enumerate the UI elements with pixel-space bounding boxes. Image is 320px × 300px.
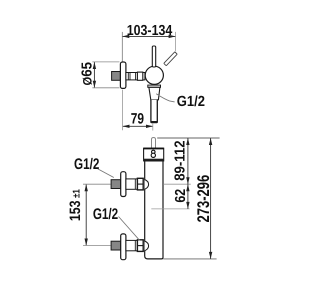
front view lower connection nut xyxy=(111,241,121,250)
dimension 79 left extension line xyxy=(122,90,124,131)
front view upper ball joint dome xyxy=(145,180,149,190)
dimension 62 arrows xyxy=(186,184,189,209)
svg-text:273-296: 273-296 xyxy=(194,175,213,223)
extension line at lower outlet center xyxy=(151,208,189,210)
label G1/2 upper front leader line xyxy=(98,169,114,178)
dimension Ø65 line xyxy=(93,62,95,88)
dimension 62 text xyxy=(173,189,189,203)
dimension 103-134 line xyxy=(122,35,175,37)
front view body cap top thick edge xyxy=(144,148,164,150)
front view upper connection nut xyxy=(111,180,121,189)
label G1/2 lower front leader line xyxy=(119,217,140,241)
dimension 89-112 line xyxy=(187,138,189,184)
front view lower pipe ring line xyxy=(134,240,136,250)
side view outlet collar band xyxy=(148,85,161,87)
dimension 89-112 arrows xyxy=(186,138,189,184)
dimension 153 tolerance text xyxy=(71,189,82,198)
label G1/2 upper front text xyxy=(74,156,99,173)
svg-text:G1/2: G1/2 xyxy=(93,206,118,223)
front view upper escutcheon plate xyxy=(121,172,126,197)
dimension 153 line xyxy=(85,184,87,245)
front view lever knob circle small xyxy=(152,150,156,154)
front view upper connection pipe xyxy=(126,179,137,189)
dimension 153 text xyxy=(67,200,84,221)
svg-text:G1/2: G1/2 xyxy=(177,94,205,110)
label G1/2 side view text xyxy=(177,94,205,110)
dimension 62 line xyxy=(187,184,189,209)
dimension 89-112 text xyxy=(173,140,189,180)
side view wall nut xyxy=(112,72,121,81)
dimension 273-296 arrows xyxy=(209,138,212,259)
side view outlet tapered neck xyxy=(149,87,160,100)
svg-text:±1: ±1 xyxy=(71,189,82,198)
front view body column xyxy=(145,161,163,259)
side view lever open position outline xyxy=(164,52,177,66)
side view lever stem vertical xyxy=(152,46,155,67)
front view lower escutcheon plate xyxy=(121,234,126,260)
dimension Ø65 arrows xyxy=(93,62,96,88)
dimension Ø65 bottom extension line xyxy=(92,87,119,89)
side view union collar xyxy=(137,72,142,80)
dimension 273-296 text xyxy=(194,175,213,223)
dimension 153 bottom extension line xyxy=(83,245,111,247)
front view body cap dark band xyxy=(144,159,164,161)
side view escutcheon plate xyxy=(120,62,126,88)
front view bottom extension line xyxy=(163,258,216,260)
label G1/2 lower front text xyxy=(93,206,118,223)
front view upper collar mid line xyxy=(137,183,143,185)
dimension 79 text xyxy=(131,110,144,127)
dimension 103-134 text xyxy=(127,23,173,39)
front view body cap section xyxy=(144,148,164,161)
front view lower connection pipe xyxy=(126,240,137,250)
svg-text:153: 153 xyxy=(67,200,84,221)
extension line at supply center right xyxy=(163,183,191,185)
dimension 79 line xyxy=(123,125,154,127)
side view mixer ball body xyxy=(145,66,163,84)
side view outlet tube thick bottom xyxy=(151,121,157,123)
dimension Ø65 text xyxy=(80,62,96,86)
svg-text:89-112: 89-112 xyxy=(173,140,189,180)
front view top extension line xyxy=(157,137,219,139)
label G1/2 side view leader line xyxy=(156,94,174,102)
front view lower union collar xyxy=(137,240,143,252)
side view outlet tube xyxy=(151,100,157,123)
dimension 103-134 right extension line xyxy=(175,32,177,51)
side view connection pipe xyxy=(126,73,145,80)
svg-text:79: 79 xyxy=(131,110,144,127)
dimension 153 arrows xyxy=(85,184,88,245)
dimension 153 top extension line xyxy=(83,183,111,185)
dimension 273-296 line xyxy=(210,138,212,259)
dimension 79 right extension line xyxy=(152,124,154,131)
svg-text:G1/2: G1/2 xyxy=(74,156,99,173)
front view upper union collar xyxy=(137,178,143,190)
dimension 79 arrows xyxy=(123,125,154,128)
front view lower ball joint dome xyxy=(145,241,149,251)
front view lower collar mid line xyxy=(137,245,143,247)
dimension 103-134 left extension line xyxy=(121,32,123,62)
front view top outlet stub xyxy=(152,138,156,149)
dimension Ø65 top extension line xyxy=(92,61,119,63)
dimension 103-134 arrows xyxy=(122,35,175,38)
front view upper pipe ring line xyxy=(134,179,136,189)
side view pipe ring lines xyxy=(128,73,135,80)
front view lever knob circle large xyxy=(151,153,155,157)
